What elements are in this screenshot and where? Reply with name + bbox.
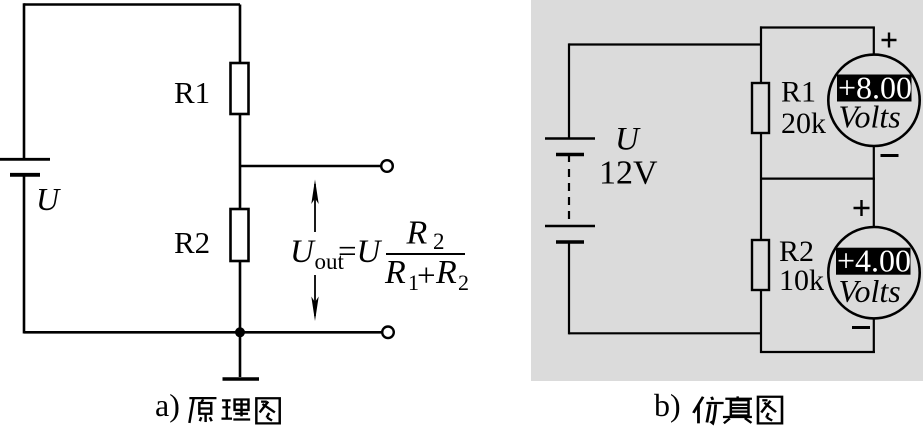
- formula fraction bar: [386, 253, 465, 255]
- wire bottom: [24, 331, 383, 334]
- svg-text:20k: 20k: [781, 107, 826, 140]
- terminal top output: [381, 160, 393, 172]
- svg-text:=: =: [338, 234, 357, 270]
- battery stub below short plate 1: [568, 155, 570, 163]
- resistor R2 sim: [752, 240, 769, 290]
- caption char 原: [189, 398, 216, 423]
- wire battery bottom: [569, 332, 761, 334]
- svg-text:R1: R1: [781, 76, 816, 109]
- arrow up Uout: [314, 184, 316, 232]
- wire left vertical lower: [23, 175, 26, 334]
- svg-text:R: R: [406, 215, 428, 252]
- caption char 真: [723, 396, 752, 423]
- battery V short plate 1: [556, 153, 584, 157]
- voltmeter U1 circle: [828, 55, 919, 146]
- plus voltmeter 1: [882, 33, 897, 48]
- wire battery top: [569, 43, 761, 45]
- svg-text:R2: R2: [174, 225, 210, 260]
- battery dashed middle: [568, 169, 570, 219]
- svg-text:+: +: [417, 258, 436, 294]
- svg-text:12V: 12V: [599, 155, 658, 192]
- svg-text:U: U: [615, 122, 641, 158]
- wire right lower: [873, 318, 875, 353]
- terminal bottom output: [382, 327, 394, 339]
- svg-text:U: U: [290, 234, 316, 270]
- wire top: [24, 3, 240, 6]
- plus voltmeter 2: [854, 200, 870, 216]
- gray simulation panel background: [531, 0, 923, 381]
- caption char 仿: [693, 397, 723, 424]
- wire branch vertical: [239, 5, 242, 378]
- wire left vertical upper: [23, 3, 26, 159]
- svg-text:b): b): [654, 387, 681, 423]
- voltmeter U1 display: [837, 75, 912, 102]
- svg-text:U: U: [357, 234, 383, 270]
- wire branch vertical: [760, 26, 762, 353]
- voltmeter U2 circle: [828, 227, 919, 318]
- svg-text:U: U: [36, 181, 61, 217]
- wire right between meters: [873, 146, 875, 180]
- minus voltmeter 1: [881, 154, 899, 157]
- wire middle inner: [760, 178, 875, 180]
- svg-text:10k: 10k: [779, 264, 824, 297]
- resistor R1 sim: [752, 83, 769, 133]
- resistor R2: [231, 209, 249, 261]
- ground bar: [223, 377, 260, 381]
- svg-text:Volts: Volts: [839, 273, 901, 309]
- wire battery left upper: [568, 43, 570, 138]
- svg-text:2: 2: [433, 229, 445, 254]
- svg-text:R: R: [435, 254, 457, 291]
- resistor R1: [231, 63, 249, 114]
- battery V long plate 2: [545, 225, 595, 228]
- wire bottom inner: [760, 351, 875, 353]
- battery V short plate 2: [556, 240, 584, 244]
- svg-text:Volts: Volts: [839, 99, 901, 135]
- junction node: [235, 327, 245, 337]
- wire top inner: [760, 26, 875, 28]
- caption char 图 sim: [758, 397, 782, 424]
- svg-text:R1: R1: [174, 75, 210, 110]
- battery V long plate 1: [545, 137, 595, 140]
- svg-text:2: 2: [458, 270, 469, 295]
- svg-text:R: R: [384, 254, 406, 291]
- wire mid output: [240, 165, 382, 168]
- battery U short plate: [10, 173, 40, 177]
- voltmeter U2 display: [836, 248, 911, 275]
- arrow down Uout: [314, 275, 316, 316]
- wire battery left lower: [568, 242, 570, 334]
- battery U long plate: [0, 158, 50, 161]
- minus voltmeter 2: [852, 326, 870, 329]
- wire right mid2: [873, 179, 875, 228]
- caption char 图: [256, 398, 279, 423]
- wire right upper: [873, 28, 875, 58]
- svg-text:a): a): [155, 387, 180, 423]
- caption char 理: [221, 400, 250, 420]
